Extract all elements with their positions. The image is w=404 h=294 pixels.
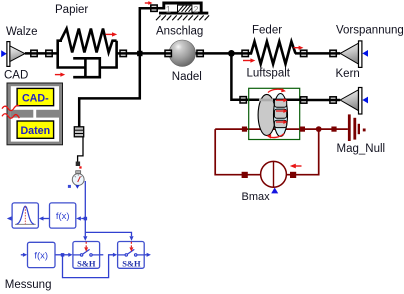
svg-text:2: 2	[193, 5, 198, 16]
svg-text:Walze: Walze	[6, 26, 38, 38]
svg-text:Nadel: Nadel	[172, 71, 202, 83]
svg-text:CAD-: CAD-	[22, 92, 49, 104]
svg-text:Papier: Papier	[55, 4, 88, 16]
svg-text:Kern: Kern	[336, 68, 360, 80]
svg-text:Bmax: Bmax	[242, 191, 271, 203]
svg-text:Messung: Messung	[5, 279, 52, 291]
svg-text:Luftspalt: Luftspalt	[247, 68, 291, 80]
svg-text:S&H: S&H	[77, 258, 96, 268]
svg-text:S&H: S&H	[122, 258, 141, 268]
svg-text:f(x): f(x)	[34, 250, 48, 261]
svg-text:CAD: CAD	[4, 70, 28, 82]
svg-text:Anschlag: Anschlag	[156, 26, 203, 38]
svg-text:f(x): f(x)	[56, 211, 70, 222]
svg-text:1: 1	[166, 5, 171, 16]
svg-text:Vorspannung: Vorspannung	[336, 25, 404, 37]
svg-text:Feder: Feder	[252, 25, 282, 37]
svg-text:Mag_Null: Mag_Null	[337, 143, 386, 155]
svg-text:Daten: Daten	[20, 125, 50, 137]
